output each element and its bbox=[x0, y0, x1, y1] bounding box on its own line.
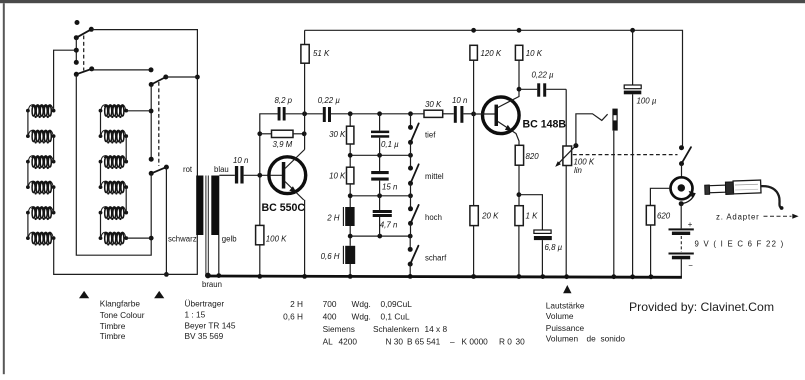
transformer T1 core / braun lead bbox=[205, 176, 211, 279]
wire emitter bypass tee bbox=[519, 195, 543, 230]
wire loop around coil column 2 bbox=[76, 74, 151, 255]
marker triangle Klangfarbe bbox=[79, 291, 89, 298]
wire L4-L5 bbox=[53, 187, 55, 213]
svg-text:15 n: 15 n bbox=[382, 183, 398, 192]
svg-text:10 K: 10 K bbox=[329, 171, 346, 180]
svg-text:braun: braun bbox=[202, 280, 222, 289]
switch mittel bbox=[408, 155, 419, 196]
svg-text:30 K: 30 K bbox=[425, 100, 442, 109]
pickup coil L3 bbox=[26, 156, 56, 169]
switch S3 arm bbox=[149, 75, 169, 88]
svg-text:6,8 µ: 6,8 µ bbox=[545, 243, 563, 252]
battery B1 9V positive plate bbox=[669, 201, 694, 235]
svg-text:BC 550C: BC 550C bbox=[262, 202, 306, 214]
capacitor C3 0,22u bbox=[323, 107, 331, 122]
connector X1 adapter socket bbox=[671, 177, 693, 199]
capacitor C4 0,1u bbox=[371, 114, 389, 156]
svg-text:BV 35 569: BV 35 569 bbox=[185, 331, 224, 341]
transformer T1 secondary winding bbox=[211, 176, 219, 236]
wire +9V top rail bbox=[305, 28, 683, 148]
legend winding column bbox=[323, 299, 526, 346]
wire socket to R12 bbox=[650, 188, 670, 205]
svg-text:0,6 H: 0,6 H bbox=[283, 312, 303, 322]
switch S4 arm bbox=[149, 165, 169, 176]
jack J1 output bar bbox=[612, 109, 617, 131]
svg-text:Schalenkern: Schalenkern bbox=[373, 324, 420, 334]
transistor Q1 base bar bbox=[282, 162, 286, 189]
marker triangle Lautstaerke bbox=[563, 285, 571, 293]
svg-text:K 0000: K 0000 bbox=[462, 337, 489, 347]
svg-text:schwarz: schwarz bbox=[168, 234, 197, 243]
switch S1 arm bbox=[74, 27, 94, 40]
arrow to adapter bbox=[764, 214, 799, 219]
svg-text:−: − bbox=[688, 261, 693, 270]
ladder row 3 bbox=[348, 193, 413, 198]
adapter plug shaft bbox=[709, 185, 725, 193]
power switch S5 bbox=[679, 145, 691, 177]
transistor Q1 collector lead bbox=[285, 150, 305, 169]
wire L1-L2 bbox=[27, 111, 29, 137]
resistor R5 10K bbox=[347, 167, 354, 207]
wire gelb to ground rail bbox=[216, 235, 221, 278]
svg-text:0,1 CuL: 0,1 CuL bbox=[381, 312, 410, 322]
wire S2 contact to S3 alt contact bbox=[92, 67, 154, 72]
svg-text:de: de bbox=[587, 334, 597, 344]
adapter plug body bbox=[733, 180, 761, 194]
transformer T1 primary winding bbox=[196, 176, 203, 236]
svg-text:mittel: mittel bbox=[425, 172, 444, 181]
svg-text:10 n: 10 n bbox=[233, 156, 249, 165]
svg-text:Wdg.: Wdg. bbox=[352, 312, 371, 322]
wire blau to C1 bbox=[219, 174, 235, 176]
pickup coil L12 bbox=[99, 232, 129, 245]
svg-text:R 0: R 0 bbox=[499, 337, 512, 347]
svg-text:Beyer TR 145: Beyer TR 145 bbox=[185, 321, 236, 331]
resistor R3 100K bbox=[256, 225, 264, 278]
pickup coil L9 bbox=[99, 156, 129, 169]
svg-text:1 K: 1 K bbox=[526, 212, 539, 221]
ground rail bbox=[208, 276, 682, 277]
resistor R7 120K bbox=[470, 45, 478, 205]
svg-text:gelb: gelb bbox=[222, 234, 237, 243]
wire coil column 1 to switch pole bbox=[54, 50, 77, 108]
pickup coil L11 bbox=[99, 207, 129, 220]
svg-text:BC 148B: BC 148B bbox=[523, 118, 567, 130]
wire wiper to jack spring bbox=[576, 114, 608, 146]
resistor R9 820 bbox=[515, 145, 523, 205]
svg-text:Siemens: Siemens bbox=[323, 324, 355, 334]
wire L6 to ground return bbox=[54, 240, 198, 274]
svg-text:100 K: 100 K bbox=[266, 235, 287, 244]
battery B1 cell link bbox=[680, 236, 682, 252]
transistor Q2 collector lead bbox=[498, 97, 519, 108]
svg-text:Klangfarbe: Klangfarbe bbox=[100, 299, 141, 309]
svg-text:4,7 n: 4,7 n bbox=[380, 220, 398, 229]
svg-text:100 K: 100 K bbox=[574, 158, 595, 167]
adapter plug collar bbox=[725, 182, 733, 195]
svg-text:51 K: 51 K bbox=[313, 49, 330, 58]
svg-text:Timbre: Timbre bbox=[100, 331, 126, 341]
pickup coil L8 bbox=[99, 130, 129, 143]
capacitor C1 10n bbox=[235, 166, 244, 184]
svg-text:0,22 µ: 0,22 µ bbox=[318, 96, 341, 105]
svg-text:Volume: Volume bbox=[546, 311, 574, 321]
wire L2-L3 bbox=[53, 136, 55, 162]
marker triangle Uebertrager bbox=[154, 291, 164, 298]
wire signal row to ladder bbox=[331, 111, 424, 116]
wire jack sleeve to ground bbox=[611, 131, 616, 280]
pickup coil L6 bbox=[26, 232, 56, 245]
svg-text:120 K: 120 K bbox=[481, 49, 502, 58]
legend Uebertrager column bbox=[185, 299, 236, 342]
svg-text:N 30: N 30 bbox=[386, 337, 404, 347]
resistor R12 620 bbox=[646, 206, 655, 280]
svg-text:10 n: 10 n bbox=[452, 96, 468, 105]
switch S1 open contact bbox=[75, 20, 80, 25]
connector X1 switching contact with arrow bbox=[682, 191, 696, 204]
svg-text:Provided by: Clavinet.Com: Provided by: Clavinet.Com bbox=[629, 300, 774, 314]
svg-text:8,2 p: 8,2 p bbox=[275, 96, 293, 105]
pickup coil L10 bbox=[99, 181, 129, 194]
svg-text:30: 30 bbox=[516, 337, 526, 347]
wire S1 pole bus bbox=[74, 38, 79, 65]
svg-text:2 H: 2 H bbox=[290, 299, 303, 309]
svg-text:Lautstärke: Lautstärke bbox=[546, 301, 585, 311]
svg-text:820: 820 bbox=[526, 152, 540, 161]
svg-text:0,1 µ: 0,1 µ bbox=[381, 140, 399, 149]
transistor Q1 BC550C body bbox=[269, 157, 306, 194]
svg-text:z. Adapter: z. Adapter bbox=[716, 213, 760, 222]
inductor L13 2H bbox=[343, 207, 354, 246]
inductor L14 0,6H bbox=[343, 246, 355, 279]
transistor Q2 BC148B body bbox=[483, 97, 520, 134]
svg-text:scharf: scharf bbox=[425, 254, 447, 263]
svg-text:0,22 µ: 0,22 µ bbox=[532, 71, 555, 80]
svg-text:AL: AL bbox=[323, 337, 334, 347]
svg-text:Wdg.: Wdg. bbox=[352, 299, 371, 309]
svg-text:Übertrager: Übertrager bbox=[185, 299, 225, 309]
ganged link P1 to power switch bbox=[573, 154, 678, 156]
wire L9-L10 bbox=[100, 162, 102, 188]
svg-text:B 65 541: B 65 541 bbox=[407, 337, 441, 347]
svg-text:rot: rot bbox=[183, 165, 193, 174]
svg-text:10 K: 10 K bbox=[526, 49, 543, 58]
svg-text:4200: 4200 bbox=[339, 337, 358, 347]
svg-text:Tone Colour: Tone Colour bbox=[100, 310, 145, 320]
wire L7 to S3 pole bbox=[126, 110, 151, 112]
wire L5-L6 bbox=[27, 213, 29, 239]
svg-text:–: – bbox=[450, 337, 455, 347]
wire S3 contact to node rot bbox=[166, 76, 198, 78]
transistor Q2 base bar bbox=[495, 105, 499, 126]
svg-text:9 V ( I E C 6 F 22 ): 9 V ( I E C 6 F 22 ) bbox=[695, 240, 785, 249]
svg-text:620: 620 bbox=[657, 212, 671, 221]
resistor R6 30K horizontal bbox=[424, 110, 454, 117]
svg-text:0,09CuL: 0,09CuL bbox=[381, 299, 413, 309]
svg-text:1 : 15: 1 : 15 bbox=[185, 309, 206, 319]
wire C2 to collector node bbox=[286, 111, 323, 116]
pickup coil L1 bbox=[26, 105, 56, 118]
switch hoch bbox=[408, 196, 419, 236]
resistor R4 30K bbox=[347, 114, 354, 167]
potentiometer P1 100K lin bbox=[563, 146, 572, 279]
svg-text:20 K: 20 K bbox=[481, 212, 499, 221]
wire C7 to base node Q2 bbox=[463, 112, 476, 117]
svg-text:hoch: hoch bbox=[425, 213, 442, 222]
legend Klangfarbe column bbox=[100, 299, 145, 342]
transistor Q2 emitter lead with arrow bbox=[498, 122, 519, 146]
pickup coil L4 bbox=[26, 181, 56, 194]
svg-text:sonido: sonido bbox=[601, 334, 626, 344]
wire C8 to volume pot bbox=[565, 89, 567, 146]
svg-text:3,9 M: 3,9 M bbox=[273, 140, 293, 149]
wire feedback column bbox=[257, 114, 277, 226]
wire L12 to box edge bbox=[126, 237, 151, 239]
svg-text:14 x 8: 14 x 8 bbox=[425, 324, 448, 334]
pickup coil L7 bbox=[99, 105, 129, 118]
capacitor C7 10n bbox=[454, 106, 464, 123]
wire L11-L12 bbox=[100, 213, 102, 239]
node S3 junction bbox=[195, 75, 200, 80]
svg-text:Timbre: Timbre bbox=[100, 321, 126, 331]
svg-text:tief: tief bbox=[425, 131, 436, 140]
switch S2 arm bbox=[74, 66, 94, 76]
capacitor C8 0,22u coupling bbox=[519, 83, 566, 96]
svg-text:30 K: 30 K bbox=[329, 130, 346, 139]
wire L10-L11 bbox=[125, 187, 127, 213]
svg-text:100 µ: 100 µ bbox=[637, 97, 657, 106]
svg-text:lin: lin bbox=[574, 166, 583, 175]
wire S3 pole down bbox=[149, 85, 154, 162]
ladder row 4 bbox=[348, 234, 413, 239]
pickup coil L5 bbox=[26, 207, 56, 220]
resistor R1 51K bbox=[301, 30, 309, 149]
node coil L12 tap bbox=[149, 236, 154, 241]
wire base Q2 bbox=[474, 113, 495, 115]
ganged link S1-S2 bbox=[83, 36, 85, 71]
pickup coil L2 bbox=[26, 130, 56, 143]
resistor R11 1K bbox=[515, 206, 523, 279]
potentiometer P1 wiper arrow bbox=[555, 143, 578, 167]
wire Q1 emitter to ground bbox=[302, 200, 307, 279]
resistor R8 10K bbox=[515, 45, 522, 97]
switch tief bbox=[408, 114, 419, 156]
resistor R10 20K bbox=[470, 206, 478, 279]
switch scharf bbox=[408, 236, 419, 279]
battery B1 negative plate bbox=[669, 253, 694, 278]
legend inductance column bbox=[283, 299, 303, 321]
wire S1 contact to node rot bbox=[91, 30, 197, 176]
adapter plug tip bbox=[705, 180, 761, 195]
svg-text:blau: blau bbox=[214, 165, 229, 174]
wire L7-L8 bbox=[100, 111, 102, 137]
wire L3-L4 bbox=[27, 162, 29, 188]
svg-text:400: 400 bbox=[323, 312, 337, 322]
wire C1 to base Q1 bbox=[244, 173, 283, 178]
svg-text:2 H: 2 H bbox=[326, 213, 340, 222]
svg-text:Puissance: Puissance bbox=[546, 323, 585, 333]
capacitor C2 8,2p bbox=[278, 107, 286, 121]
transistor Q1 emitter lead with arrow bbox=[285, 182, 304, 201]
ladder row 2 bbox=[348, 153, 413, 158]
svg-text:+: + bbox=[688, 220, 693, 229]
wire L8-L9 bbox=[125, 136, 127, 162]
resistor R2 3,9M bbox=[260, 130, 307, 137]
svg-text:700: 700 bbox=[323, 299, 337, 309]
capacitor C10 100u electrolytic bbox=[624, 30, 642, 279]
svg-text:0,6 H: 0,6 H bbox=[321, 252, 340, 261]
ganged link S3-S4 bbox=[158, 82, 160, 166]
capacitor C9 6,8u electrolytic bbox=[534, 230, 552, 279]
capacitor C6 4,7n bbox=[373, 196, 392, 236]
wire S4 contact down to ground return bbox=[164, 167, 169, 277]
capacitor C5 15n bbox=[371, 155, 389, 196]
legend Lautstaerke column bbox=[546, 301, 626, 344]
wire schwarz down to ground return bbox=[196, 235, 198, 275]
adapter plug cable bbox=[761, 186, 784, 210]
svg-text:Volumen: Volumen bbox=[546, 334, 579, 344]
